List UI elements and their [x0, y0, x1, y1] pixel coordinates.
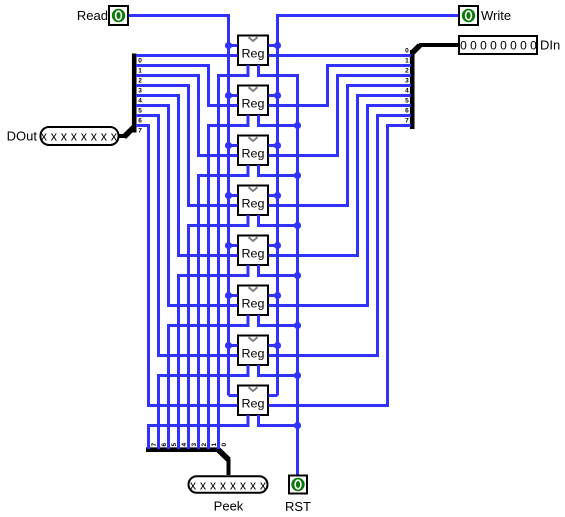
svg-text:x: x — [51, 130, 58, 144]
input pin RST (button) — [285, 476, 311, 515]
wire Reg4 peek stub (bottom-left pin) — [247, 215, 250, 227]
bus wire DIn — [419, 43, 458, 47]
wire DIn bit4 route — [356, 94, 411, 97]
wire Reg8 read stub (upper-left pin) — [229, 394, 238, 397]
svg-text:Read: Read — [77, 8, 108, 23]
junction Read at Reg5 — [225, 242, 232, 249]
wire Reg5 read stub (upper-left pin) — [229, 244, 238, 247]
wire Reg5 peek stub (bottom-left pin) — [247, 265, 250, 277]
svg-text:DIn: DIn — [540, 38, 560, 53]
register Reg8 — [238, 386, 268, 416]
wire RST vertical trunk — [296, 76, 299, 475]
junction RST at Reg4 — [294, 222, 301, 229]
splitter DIn (right) — [405, 45, 420, 129]
wire Reg1 read stub (upper-left pin) — [229, 44, 238, 47]
wire Read vertical trunk — [227, 14, 230, 396]
svg-text:2: 2 — [405, 67, 409, 74]
bus wire Peek — [227, 459, 231, 476]
wire Reg4 rst stub (bottom-right pin) — [257, 215, 260, 227]
svg-text:4: 4 — [138, 97, 142, 104]
junction RST at Reg8 — [294, 422, 301, 429]
wire Write horizontal — [276, 14, 458, 17]
wire Peek bit4 vertical — [177, 274, 180, 449]
svg-text:3: 3 — [138, 87, 142, 94]
svg-text:Reg: Reg — [242, 146, 265, 160]
wire Write vertical trunk — [276, 14, 279, 396]
junction RST at Reg3 — [294, 172, 301, 179]
wire DOut bit1 route — [136, 64, 210, 67]
junction Read at Reg6 — [225, 292, 232, 299]
output pin DOut 8-bit — [7, 127, 119, 145]
wire Reg1 write stub (upper-right pin) — [269, 44, 278, 47]
svg-text:x: x — [101, 130, 108, 144]
junction RST at Reg7 — [294, 372, 301, 379]
svg-text:0: 0 — [530, 39, 537, 53]
junction RST at Reg5 — [294, 272, 301, 279]
svg-text:0: 0 — [500, 39, 507, 53]
wire Reg7 read stub (upper-left pin) — [229, 344, 238, 347]
register Reg5 — [238, 236, 268, 266]
svg-text:x: x — [81, 130, 88, 144]
junction Write at Reg4 — [274, 192, 281, 199]
svg-text:0: 0 — [221, 443, 228, 447]
wire Reg1 rst stub (bottom-right pin) — [257, 65, 260, 77]
wire DIn bit1 route — [326, 64, 411, 67]
wire DOut bit7 route — [136, 124, 150, 127]
svg-text:6: 6 — [405, 107, 409, 114]
wire DOut bit5 route — [136, 104, 170, 107]
svg-text:Reg: Reg — [242, 246, 265, 260]
svg-text:x: x — [230, 478, 237, 492]
wire Read horizontal — [129, 14, 230, 17]
wire Reg2 read stub (upper-left pin) — [229, 94, 238, 97]
wire Reg5 write stub (upper-right pin) — [269, 244, 278, 247]
wire DIn bit7 route — [386, 124, 411, 127]
svg-text:0: 0 — [510, 39, 517, 53]
wire Reg5 rst stub (bottom-right pin) — [257, 265, 260, 277]
svg-text:0: 0 — [405, 47, 409, 54]
svg-text:Peek: Peek — [214, 498, 244, 513]
svg-text:Reg: Reg — [242, 346, 265, 360]
svg-text:x: x — [210, 478, 217, 492]
wire Reg6 read stub (upper-left pin) — [229, 294, 238, 297]
svg-text:1: 1 — [405, 57, 409, 64]
wire DIn bit5 route — [366, 104, 411, 107]
junction Read at Reg3 — [225, 142, 232, 149]
wire Reg7 peek stub (bottom-left pin) — [247, 365, 250, 377]
wire Peek bit1 vertical — [207, 124, 210, 449]
svg-text:0: 0 — [470, 39, 477, 53]
svg-text:Reg: Reg — [242, 296, 265, 310]
svg-text:x: x — [200, 478, 207, 492]
wire DOut bit2 route — [136, 74, 200, 77]
wire Peek bit0 vertical — [217, 74, 220, 449]
register Reg2 — [238, 86, 268, 116]
svg-text:DOut: DOut — [7, 129, 38, 144]
svg-text:6: 6 — [138, 117, 142, 124]
svg-text:x: x — [220, 478, 227, 492]
svg-text:7: 7 — [138, 127, 142, 134]
svg-text:5: 5 — [171, 443, 178, 447]
svg-text:x: x — [240, 478, 247, 492]
wire DOut bit0 route — [136, 54, 238, 57]
wire Reg3 rst stub (bottom-right pin) — [257, 165, 260, 177]
wire Peek bit7 vertical — [147, 424, 150, 449]
junction Write at Reg3 — [274, 142, 281, 149]
svg-text:x: x — [61, 130, 68, 144]
svg-text:RST: RST — [285, 499, 311, 514]
input pin DIn 8-bit — [459, 36, 560, 54]
svg-text:4: 4 — [181, 443, 188, 447]
wire Reg8 write stub (upper-right pin) — [269, 394, 278, 397]
wire Peek bit6 vertical — [157, 374, 160, 449]
wire DIn bit6 route — [376, 114, 411, 117]
splitter Peek (bottom) — [146, 443, 229, 460]
wire Reg4 read stub (upper-left pin) — [229, 194, 238, 197]
svg-text:x: x — [260, 478, 267, 492]
svg-text:6: 6 — [161, 443, 168, 447]
bus wire DOut — [119, 134, 127, 138]
wire Peek bit3 vertical — [187, 224, 190, 449]
svg-text:Reg: Reg — [242, 396, 265, 410]
splitter DOut (left) — [124, 54, 142, 138]
svg-text:x: x — [250, 478, 257, 492]
svg-text:0: 0 — [490, 39, 497, 53]
svg-text:Write: Write — [481, 8, 511, 23]
svg-text:x: x — [190, 478, 197, 492]
register Reg6 — [238, 286, 268, 316]
wire Reg4 write stub (upper-right pin) — [269, 194, 278, 197]
wire Reg6 rst stub (bottom-right pin) — [257, 315, 260, 327]
svg-text:x: x — [71, 130, 78, 144]
wire Reg7 rst stub (bottom-right pin) — [257, 365, 260, 377]
svg-text:Reg: Reg — [242, 96, 265, 110]
register Reg1 — [238, 36, 268, 66]
svg-text:3: 3 — [191, 443, 198, 447]
svg-text:7: 7 — [151, 443, 158, 447]
wire Reg8 peek stub (bottom-left pin) — [247, 415, 250, 427]
wire Reg2 write stub (upper-right pin) — [269, 94, 278, 97]
svg-text:1: 1 — [211, 443, 218, 447]
register Reg7 — [238, 336, 268, 366]
wire Reg1 peek stub (bottom-left pin) — [247, 65, 250, 77]
wire Reg6 peek stub (bottom-left pin) — [247, 315, 250, 327]
wire Reg7 write stub (upper-right pin) — [269, 344, 278, 347]
wire Reg3 read stub (upper-left pin) — [229, 144, 238, 147]
wire Peek bit2 vertical — [197, 174, 200, 449]
junction Write at Reg5 — [274, 242, 281, 249]
register Reg4 — [238, 186, 268, 216]
junction Read at Reg1 — [225, 42, 232, 49]
junction Write at Reg2 — [274, 92, 281, 99]
wire Reg3 write stub (upper-right pin) — [269, 144, 278, 147]
svg-text:5: 5 — [138, 107, 142, 114]
svg-text:Reg: Reg — [242, 196, 265, 210]
svg-text:2: 2 — [201, 443, 208, 447]
svg-text:5: 5 — [405, 97, 409, 104]
svg-text:4: 4 — [405, 87, 409, 94]
wire DOut bit3 route — [136, 84, 190, 87]
svg-text:1: 1 — [138, 67, 142, 74]
svg-text:0: 0 — [138, 57, 142, 64]
wire Reg8 rst stub (bottom-right pin) — [257, 415, 260, 427]
svg-text:x: x — [41, 130, 48, 144]
wire Reg2 peek stub (bottom-left pin) — [247, 115, 250, 127]
wire DOut bit4 route — [136, 94, 180, 97]
junction Write at Reg1 — [274, 42, 281, 49]
wire Peek bit5 vertical — [167, 324, 170, 449]
svg-text:0: 0 — [520, 39, 527, 53]
wire Reg6 write stub (upper-right pin) — [269, 294, 278, 297]
svg-text:3: 3 — [405, 77, 409, 84]
input pin Read (button) — [77, 6, 128, 25]
svg-text:7: 7 — [405, 117, 409, 124]
output pin Peek 8-bit — [189, 476, 268, 513]
svg-text:2: 2 — [138, 77, 142, 84]
junction Write at Reg7 — [274, 342, 281, 349]
svg-text:0: 0 — [460, 39, 467, 53]
junction Read at Reg4 — [225, 192, 232, 199]
svg-text:Reg: Reg — [242, 46, 265, 60]
junction Read at Reg7 — [225, 342, 232, 349]
wire Reg3 peek stub (bottom-left pin) — [247, 165, 250, 177]
junction RST at Reg6 — [294, 322, 301, 329]
input pin Write (button) — [459, 6, 511, 25]
wire Reg2 rst stub (bottom-right pin) — [257, 115, 260, 127]
svg-text:x: x — [91, 130, 98, 144]
register Reg3 — [238, 136, 268, 166]
svg-text:0: 0 — [480, 39, 487, 53]
junction RST at Reg2 — [294, 122, 301, 129]
wire DIn bit3 route — [346, 84, 411, 87]
junction Read at Reg2 — [225, 92, 232, 99]
svg-text:x: x — [111, 130, 118, 144]
wire DOut bit6 route — [136, 114, 160, 117]
wire DIn bit2 route — [336, 74, 411, 77]
wire DIn bit0 route — [269, 54, 412, 57]
junction Write at Reg6 — [274, 292, 281, 299]
